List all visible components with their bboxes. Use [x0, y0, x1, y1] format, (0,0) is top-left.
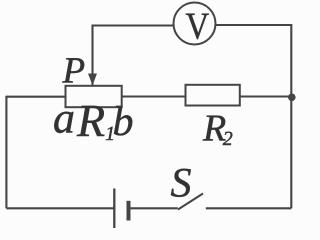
wire main right (R2 to node) [240, 95, 291, 97]
battery cell long plate [113, 189, 115, 229]
wire main middle (R1 to R2) [122, 95, 186, 97]
wire bottom-left (left rail to battery) [6, 207, 114, 209]
resistor R2 body [186, 85, 240, 106]
wire right vertical rail [290, 24, 292, 208]
wire main left (left rail to R1) [6, 96, 65, 98]
svg-text:a: a [53, 94, 75, 143]
svg-text:S: S [171, 161, 192, 207]
node junction dot [288, 94, 296, 102]
switch S blade [178, 194, 203, 210]
wire top-right (voltmeter to right rail) [216, 24, 292, 26]
svg-text:V: V [186, 6, 210, 48]
wire top-left (wiper to voltmeter) [93, 26, 174, 86]
voltmeter V (meter circle) [174, 3, 216, 48]
svg-text:b: b [113, 99, 134, 145]
wiper arrowhead P [88, 74, 97, 86]
wire switch to bottom-right corner [206, 207, 291, 209]
wire left vertical rail [5, 96, 7, 209]
wire battery to switch [129, 207, 178, 209]
battery cell short thick plate [127, 201, 131, 221]
potentiometer R1 (rheostat body) [66, 86, 122, 107]
svg-text:P: P [62, 51, 86, 92]
